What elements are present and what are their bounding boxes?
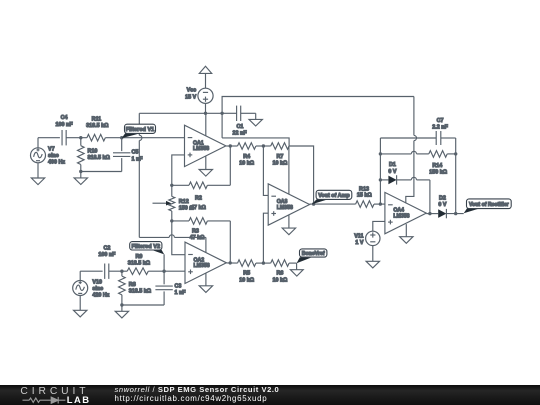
svg-text:420 Hz: 420 Hz bbox=[92, 293, 109, 299]
svg-text:R8: R8 bbox=[129, 282, 136, 288]
svg-text:1 nF: 1 nF bbox=[132, 156, 144, 162]
svg-text:1 nF: 1 nF bbox=[175, 290, 187, 296]
voltage source V11 (1 V) bbox=[366, 231, 380, 245]
wire C2 to R9 bbox=[109, 270, 127, 272]
resistor R2 bbox=[172, 184, 189, 186]
footer url line bbox=[115, 394, 268, 403]
svg-text:150 kΩ: 150 kΩ bbox=[429, 169, 447, 175]
wire V7 top to C4 bbox=[37, 138, 39, 148]
op-amp OA1 bbox=[185, 125, 226, 166]
capacitor C5 bbox=[121, 138, 123, 151]
voltage source V7 (sine 400 Hz) bbox=[31, 148, 46, 163]
wire D1 to OA4 output bbox=[429, 180, 431, 214]
node R8 bottom bbox=[120, 303, 123, 306]
svg-text:22 nF: 22 nF bbox=[233, 131, 248, 137]
op-amp OA3 bbox=[268, 184, 309, 225]
wire OA3 output to R13 bbox=[310, 203, 356, 205]
wire R6 to ground node bbox=[289, 262, 297, 264]
svg-text:Filtered V2: Filtered V2 bbox=[131, 244, 160, 250]
svg-text:D1: D1 bbox=[389, 162, 396, 168]
svg-text:LM358: LM358 bbox=[194, 263, 210, 269]
Vcc node arrow bbox=[199, 66, 211, 73]
svg-text:LM358: LM358 bbox=[393, 213, 409, 219]
svg-text:R9: R9 bbox=[135, 254, 142, 260]
wire R9 to OA2 + input bbox=[148, 270, 185, 272]
wire OA3 top supply pin bbox=[288, 146, 290, 195]
svg-text:LM358: LM358 bbox=[277, 205, 293, 211]
capacitor C2 bbox=[104, 264, 106, 279]
svg-text:Filtered V1: Filtered V1 bbox=[126, 127, 155, 133]
svg-text:1 V: 1 V bbox=[355, 240, 363, 246]
flag Vout of Rectifier bbox=[464, 209, 479, 214]
wire left vertical C7/R14/D1 bbox=[379, 138, 381, 204]
wire C5 bottom to R10 bottom bbox=[81, 171, 122, 173]
flag Vout of Amp bbox=[312, 199, 327, 204]
flag Filtered V2 bbox=[151, 250, 164, 255]
svg-text:10 kΩ: 10 kΩ bbox=[272, 277, 287, 283]
wire rail down left side (to OA2 supply) bbox=[138, 113, 140, 135]
wire Vcc drop to OA4 supply bbox=[413, 97, 415, 136]
wire OA1 + input bbox=[172, 155, 185, 185]
node C2/R9/R8 bbox=[120, 270, 123, 273]
svg-text:R5: R5 bbox=[243, 271, 250, 277]
node rail/C1 bbox=[220, 112, 223, 115]
ground below V11 bbox=[372, 246, 374, 262]
wire Vcc to rail bbox=[205, 103, 207, 113]
svg-text:10 kΩ: 10 kΩ bbox=[239, 277, 254, 283]
node R2/R12 top bbox=[170, 184, 173, 187]
svg-text:Vout of Rectifier: Vout of Rectifier bbox=[469, 202, 509, 208]
node R9/C3 (Filtered V2) bbox=[162, 270, 165, 273]
svg-text:C4: C4 bbox=[61, 115, 68, 121]
resistor R13 bbox=[356, 201, 374, 208]
wire OA3 - input drop bbox=[263, 146, 268, 195]
wire across to OA2 supply pin bbox=[139, 236, 169, 238]
wire OA3 + input drop bbox=[263, 213, 268, 263]
svg-text:47 kΩ: 47 kΩ bbox=[190, 235, 205, 241]
svg-text:318.5 kΩ: 318.5 kΩ bbox=[86, 123, 109, 129]
wire C4 to R11 bbox=[66, 137, 87, 139]
resistor R4 bbox=[238, 143, 256, 150]
ground below R8 bbox=[121, 305, 123, 311]
ground right of C1 bbox=[255, 113, 257, 119]
wire R2 right to OA1 output bbox=[229, 146, 231, 185]
flag Filtered V1 bbox=[122, 133, 139, 138]
svg-text:318.5 kΩ: 318.5 kΩ bbox=[129, 289, 152, 295]
resistor R10 bbox=[80, 138, 82, 146]
wire OA2 output to R5 bbox=[226, 262, 237, 264]
svg-text:0 V: 0 V bbox=[438, 202, 446, 208]
footer title line bbox=[115, 385, 280, 394]
resistor R14 bbox=[380, 153, 411, 155]
svg-text:LM358: LM358 bbox=[193, 146, 209, 152]
svg-text:R10: R10 bbox=[88, 149, 98, 155]
wire Vcc rail left bbox=[139, 112, 222, 114]
node R4/R7 bbox=[262, 144, 265, 147]
ground below OA3 bbox=[288, 215, 290, 229]
ground at BoneVref bbox=[296, 263, 298, 270]
wire R5 to R6 bbox=[256, 262, 271, 264]
svg-text:R12: R12 bbox=[179, 199, 189, 205]
svg-text:R14: R14 bbox=[432, 163, 442, 169]
CircuitLab logo doodle bbox=[23, 396, 66, 403]
node R12/R3 bbox=[170, 219, 173, 222]
capacitor C4 bbox=[61, 130, 63, 145]
svg-text:R7: R7 bbox=[276, 154, 283, 160]
voltage source Vcc (15 V) bbox=[198, 88, 213, 103]
wire R3 right to OA2 output bbox=[229, 221, 231, 263]
svg-text:sine: sine bbox=[48, 153, 59, 159]
svg-text:C3: C3 bbox=[175, 283, 182, 289]
wire top feedback rail bbox=[222, 97, 414, 138]
node R14 right bbox=[454, 152, 457, 155]
wire R12 bottom to OA2 inverting input bbox=[172, 221, 185, 255]
svg-text:15 V: 15 V bbox=[185, 94, 196, 100]
resistor R5 bbox=[238, 260, 256, 267]
op-amp OA4 bbox=[385, 192, 426, 233]
svg-text:R3: R3 bbox=[192, 228, 199, 234]
wire V11 to OA4 + input bbox=[373, 221, 385, 231]
node Vcc rail bbox=[204, 112, 207, 115]
footer bar bbox=[0, 385, 540, 405]
svg-text:V7: V7 bbox=[48, 146, 55, 152]
svg-text:R6: R6 bbox=[276, 271, 283, 277]
svg-text:C1: C1 bbox=[236, 124, 243, 130]
diode D2 bbox=[426, 213, 438, 215]
svg-text:100 nF: 100 nF bbox=[56, 122, 74, 128]
capacitor C7 bbox=[380, 137, 436, 139]
svg-text:150 Ω: 150 Ω bbox=[179, 206, 194, 212]
svg-text:2.2 nF: 2.2 nF bbox=[432, 125, 448, 131]
svg-text:R11: R11 bbox=[92, 117, 102, 123]
svg-text:V10: V10 bbox=[92, 279, 102, 285]
svg-text:15 kΩ: 15 kΩ bbox=[357, 193, 372, 199]
svg-text:318.5 kΩ: 318.5 kΩ bbox=[128, 260, 151, 266]
svg-text:V11: V11 bbox=[354, 233, 363, 239]
resistor R7 bbox=[271, 143, 289, 150]
node OA2 output bbox=[229, 261, 232, 264]
wire R11 to OA1 inverting input bbox=[105, 137, 184, 139]
wire R13 to OA4 - input bbox=[374, 203, 385, 205]
resistor R6 bbox=[271, 260, 289, 267]
resistor R3 bbox=[172, 220, 189, 222]
svg-text:Vout of Amp: Vout of Amp bbox=[318, 193, 350, 199]
wire R7 right to OA3 output feedback bbox=[289, 146, 314, 204]
wire V10 to C2 bbox=[79, 271, 81, 280]
ground below OA1 bbox=[205, 156, 207, 169]
node D1 left bbox=[379, 178, 382, 181]
op-amp OA2 bbox=[185, 242, 226, 283]
ground below R10 bbox=[80, 172, 82, 178]
node OA4 output bbox=[428, 212, 431, 215]
wire C3 bottom to R8 bottom bbox=[122, 304, 164, 306]
svg-text:BoneVref: BoneVref bbox=[302, 251, 325, 257]
node R10 bottom bbox=[79, 170, 82, 173]
svg-text:10 kΩ: 10 kΩ bbox=[239, 161, 254, 167]
diode D1 bbox=[380, 179, 388, 181]
capacitor C1 bbox=[222, 112, 237, 114]
svg-text:D2: D2 bbox=[439, 195, 446, 201]
ground below V10 bbox=[79, 295, 81, 310]
svg-text:400 Hz: 400 Hz bbox=[48, 160, 65, 166]
node R11/C5 (Filtered V1) bbox=[120, 136, 123, 139]
ground below OA2 bbox=[205, 273, 207, 286]
voltage source V10 (sine 420 Hz) bbox=[73, 281, 88, 296]
ground below V7 bbox=[37, 163, 39, 178]
wire OA1 output to R4 bbox=[226, 145, 237, 147]
svg-text:0 V: 0 V bbox=[388, 169, 396, 175]
resistor R11 bbox=[87, 134, 105, 141]
wire R7 right to Vcc loop bbox=[222, 138, 289, 146]
svg-text:C2: C2 bbox=[103, 246, 110, 252]
node OA1 output bbox=[229, 144, 232, 147]
node OA3 output bbox=[312, 202, 315, 205]
node R14 left bbox=[379, 152, 382, 155]
wire OA1 top supply pin bbox=[205, 113, 207, 136]
svg-text:R13: R13 bbox=[359, 186, 369, 192]
wire R4 to R7 bbox=[256, 145, 271, 147]
flag BoneVref bbox=[297, 257, 311, 263]
resistor R9 bbox=[127, 268, 148, 275]
potentiometer R12 bbox=[171, 185, 173, 196]
svg-text:10 kΩ: 10 kΩ bbox=[272, 161, 287, 167]
svg-text:C5: C5 bbox=[132, 150, 139, 156]
svg-text:R2: R2 bbox=[195, 196, 202, 202]
wire Filtered V2 stub bbox=[163, 254, 165, 271]
svg-text:Vcc: Vcc bbox=[187, 88, 197, 94]
svg-text:C7: C7 bbox=[437, 118, 444, 124]
svg-text:LAB: LAB bbox=[67, 393, 91, 404]
node R5/R6 bbox=[262, 261, 265, 264]
svg-text:R4: R4 bbox=[243, 154, 250, 160]
ground below OA4 bbox=[405, 224, 407, 237]
svg-text:sine: sine bbox=[92, 286, 103, 292]
svg-text:100 nF: 100 nF bbox=[98, 252, 116, 258]
capacitor C3 bbox=[163, 271, 165, 284]
node C4/R11/R10 bbox=[79, 136, 82, 139]
node D2/R14 output bbox=[454, 212, 457, 215]
node R13/D1/OA4- bbox=[379, 202, 382, 205]
svg-text:318.5 kΩ: 318.5 kΩ bbox=[88, 155, 111, 161]
wire right vertical C7/R14 to output bbox=[455, 138, 457, 214]
resistor R8 bbox=[121, 271, 123, 276]
